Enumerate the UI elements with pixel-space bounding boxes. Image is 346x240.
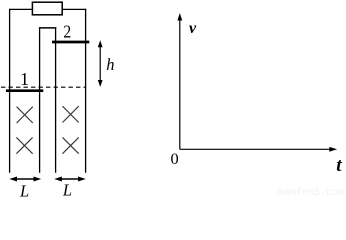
svg-text:t: t	[336, 155, 342, 176]
svg-text:1: 1	[20, 69, 29, 89]
svg-text:0: 0	[171, 151, 179, 168]
svg-text:2: 2	[63, 22, 71, 42]
svg-text:v: v	[189, 20, 197, 37]
svg-text:h: h	[106, 55, 114, 74]
svg-text:manfen5.com: manfen5.com	[278, 187, 344, 197]
svg-text:L: L	[62, 181, 72, 198]
svg-text:L: L	[19, 182, 29, 198]
